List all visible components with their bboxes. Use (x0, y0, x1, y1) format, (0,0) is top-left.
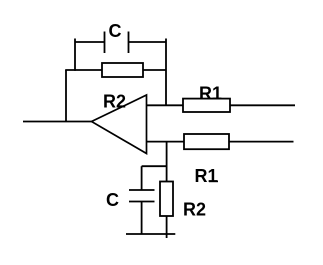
wire resistor row left segment (65, 69, 102, 71)
capacitor C load top plate (129, 189, 155, 191)
svg-text:R2: R2 (183, 200, 206, 220)
resistor R1 bottom (184, 134, 229, 149)
wire input horizontal to op-amp (23, 121, 92, 123)
wire left riser input node to resistor row (65, 70, 67, 122)
capacitor C load bottom plate (129, 201, 155, 203)
wire left riser resistor row to capacitor row (74, 39, 76, 71)
resistor R2 feedback (102, 63, 143, 77)
wire bottom output to right (229, 141, 294, 143)
wire load capacitor lower leg (141, 202, 143, 235)
wire op-amp bottom output stub (147, 141, 185, 143)
wire bottom ground rail (126, 233, 175, 235)
wire capacitor row left segment (75, 41, 105, 43)
op-amp U1 (92, 95, 147, 154)
resistor R1 top (183, 99, 230, 112)
svg-text:C: C (109, 21, 122, 41)
capacitor C feedback right plate (128, 32, 130, 54)
wire op-amp top output stub (147, 104, 184, 106)
wire vertical output node down to resistor R2 load (166, 142, 168, 182)
svg-text:R1: R1 (195, 166, 218, 186)
wire capacitor row right segment (129, 41, 167, 43)
wire top output to right (230, 104, 295, 106)
svg-text:R2: R2 (103, 92, 126, 112)
wire right riser capacitor row to output node (165, 39, 167, 106)
wire resistor row right segment (143, 69, 166, 71)
wire resistor R2 load lower leg (166, 216, 168, 238)
wire branch horizontal to load capacitor (142, 165, 167, 167)
wire load capacitor upper leg (141, 166, 143, 190)
svg-text:C: C (106, 190, 119, 210)
resistor R2 load (160, 182, 173, 217)
capacitor C feedback left plate (104, 32, 106, 54)
